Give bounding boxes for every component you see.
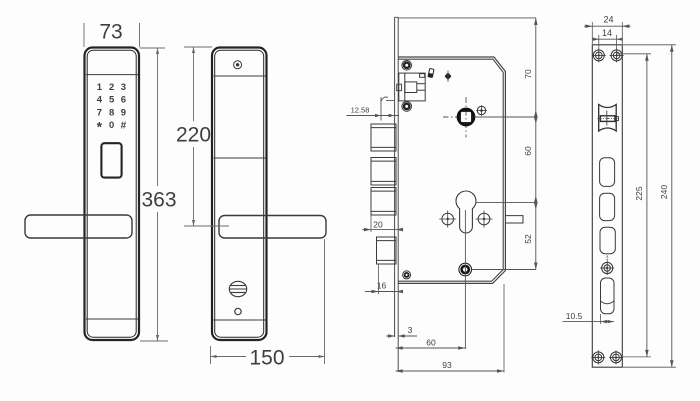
screw hole near spindle [476, 105, 487, 116]
dimension 225 line [646, 54, 648, 357]
dimension 14 [598, 35, 600, 50]
side tab on case [505, 216, 523, 223]
svg-text:225: 225 [634, 186, 644, 200]
strike plate bottom screw right [609, 350, 623, 364]
spindle extension line to dim [475, 116, 537, 118]
svg-text:10.5: 10.5 [566, 311, 583, 321]
svg-text:60: 60 [523, 146, 533, 156]
svg-text:363: 363 [141, 189, 176, 212]
latch cutout bowtie [599, 105, 617, 132]
small indicator hole [235, 308, 241, 314]
svg-text:52: 52 [523, 234, 533, 244]
dimension 220 line [193, 47, 195, 121]
spindle hub centerlines [443, 97, 466, 138]
right vertical dimension line [535, 18, 537, 270]
latch bolt assembly [397, 73, 426, 101]
front body outline [85, 48, 140, 341]
deadbolt 1 [371, 124, 396, 151]
latch cross-section bar [600, 116, 615, 122]
diamond mark [445, 72, 452, 80]
lock case outline outer [398, 57, 505, 283]
case screw top-left lower [402, 102, 412, 112]
dimension 150 line [211, 356, 247, 358]
cylinder fixing screw right [476, 211, 493, 228]
slot 1 [600, 158, 615, 187]
slot 2 [600, 193, 615, 220]
svg-text:6: 6 [121, 95, 126, 106]
svg-text:8: 8 [109, 107, 114, 118]
svg-text:24: 24 [603, 15, 613, 25]
svg-text:93: 93 [442, 360, 452, 370]
keypad digits [97, 82, 127, 135]
faceplate edge lines [394, 17, 396, 337]
thumb-turn knob [229, 281, 246, 296]
fingerprint window [101, 143, 121, 177]
back body top screw [234, 61, 242, 69]
svg-text:240: 240 [659, 185, 669, 199]
spindle hub [458, 109, 474, 125]
svg-text:60: 60 [426, 338, 436, 348]
keyhole extension line to dim [476, 202, 536, 204]
slot 4 deadbolt opening [601, 278, 615, 314]
right dim extension top [398, 17, 536, 19]
svg-text:150: 150 [249, 347, 284, 370]
dimension 12.58 shelf [347, 115, 400, 117]
screw hole with crosshair [600, 256, 614, 276]
deadbolt face arc inside slot 4 [601, 301, 615, 304]
svg-text:9: 9 [121, 107, 126, 118]
dimension 93 [396, 370, 504, 372]
svg-text:3: 3 [408, 325, 413, 335]
dimension 363 line [157, 48, 159, 186]
dimension 60 bottom [396, 347, 466, 349]
strike plate top screw right [610, 48, 624, 62]
lock case outline inner [398, 59, 503, 281]
dimension 225 extension lines [617, 53, 651, 55]
dimension 20 [362, 229, 403, 231]
dimension 73 extension lines [83, 23, 85, 47]
dimension 24 [591, 22, 593, 44]
deadbolt 3 [371, 188, 396, 216]
svg-text:73: 73 [99, 21, 122, 44]
svg-text:1: 1 [97, 82, 103, 93]
dimension 10.5 [563, 321, 615, 323]
svg-text:12.58: 12.58 [351, 105, 370, 114]
strike plate top screw left [592, 48, 606, 62]
svg-text:2: 2 [109, 82, 114, 93]
svg-text:16: 16 [377, 281, 387, 291]
latch front extension line [380, 97, 382, 121]
svg-text:14: 14 [602, 28, 612, 38]
front body bottom divider line [86, 318, 138, 320]
case bottom center screw [459, 263, 472, 276]
dimension 150 extension lines [210, 346, 212, 364]
strike plate outline [592, 45, 622, 367]
slot 3 [600, 227, 615, 253]
small lock glyph [428, 68, 434, 77]
svg-text:#: # [121, 120, 127, 131]
svg-text:20: 20 [373, 220, 383, 230]
svg-text:5: 5 [109, 95, 115, 106]
back handle [219, 216, 326, 239]
latch bolt 4 [377, 237, 397, 264]
svg-text:7: 7 [97, 107, 102, 118]
svg-text:220: 220 [176, 124, 211, 147]
svg-text:4: 4 [97, 95, 103, 106]
bottom screw extension to dim [472, 269, 536, 271]
back body mid divider line [214, 157, 266, 159]
latch bevel arc [381, 97, 388, 102]
svg-text:*: * [97, 119, 103, 135]
svg-text:70: 70 [523, 69, 533, 79]
euro cylinder keyhole [456, 191, 476, 233]
dimension 16 [365, 291, 403, 293]
cylinder fixing screw left [439, 211, 456, 228]
front handle [25, 215, 132, 238]
deadbolt 2 [371, 158, 396, 186]
vertical centerline below keyhole [464, 210, 466, 349]
case bottom-left screw [403, 271, 411, 279]
svg-text:0: 0 [109, 120, 114, 131]
case screw top-left upper [402, 61, 412, 71]
back body outline [212, 48, 267, 341]
front body top divider line [86, 74, 138, 76]
strike plate bottom screw left [591, 350, 605, 364]
spindle square hole [460, 111, 472, 123]
dimension 3 [388, 334, 395, 337]
back body top divider line [214, 75, 266, 77]
dimension 363 extension lines [140, 47, 166, 49]
dimension 220 extension lines [184, 46, 212, 48]
dimension 240 line [671, 45, 673, 367]
dimension 240 extension lines [622, 44, 676, 46]
back body bottom divider line [214, 319, 266, 321]
svg-text:3: 3 [121, 82, 126, 93]
